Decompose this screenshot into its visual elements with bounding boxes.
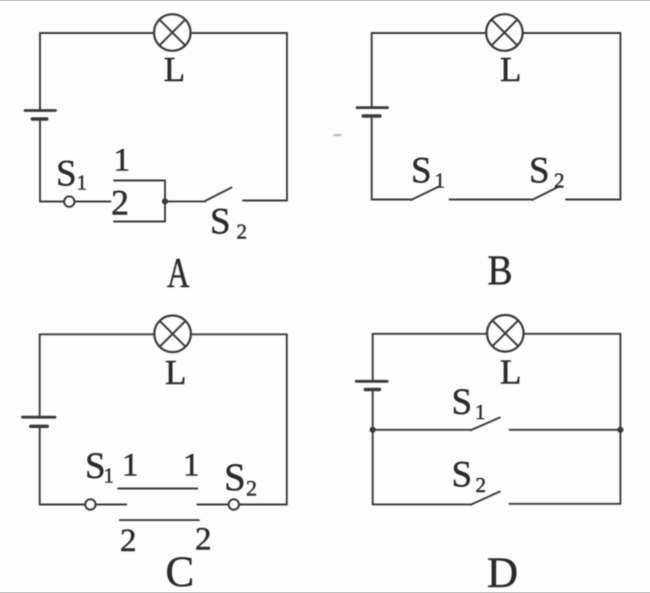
wire: C top-left: [40, 333, 155, 335]
svg-text:S: S: [224, 456, 246, 499]
wire: A top-right: [190, 32, 287, 34]
wire: B bottom-middle: [450, 199, 533, 201]
svg-text:L: L: [165, 353, 186, 392]
svg-text:1: 1: [183, 448, 200, 484]
switch S1 (D) blade: [471, 418, 500, 431]
svg-text:2: 2: [195, 522, 212, 558]
switch S2 (D) blade: [471, 492, 500, 505]
battery long plate (A): [25, 109, 56, 112]
svg-text:2: 2: [237, 219, 248, 243]
svg-text:S: S: [56, 153, 77, 194]
wire: B left vertical upper: [371, 33, 373, 107]
svg-text:C: C: [166, 549, 195, 593]
wire: S1 circle to contacts (C): [96, 504, 126, 506]
svg-text:2: 2: [246, 476, 257, 501]
wire: C bottom-right: [239, 504, 287, 506]
wire: A bottom-left: [40, 201, 64, 203]
wire: D left vertical upper: [372, 334, 374, 381]
switch S1 (B) blade: [411, 186, 440, 200]
lamp L (C): [154, 316, 191, 353]
wire: B right vertical: [619, 33, 621, 200]
wire: C bottom-left: [40, 504, 85, 506]
battery long plate (D): [356, 380, 387, 383]
wire: C left vertical lower: [39, 427, 41, 505]
wire: B top-right: [522, 32, 620, 34]
svg-text:2: 2: [554, 168, 565, 192]
wire: D right vertical: [619, 334, 621, 504]
battery long plate (C): [23, 416, 56, 419]
wire: D left vertical lower: [372, 390, 374, 504]
switch S1 contact circle (A): [64, 196, 74, 206]
battery short plate (A): [32, 117, 47, 120]
switch S2 contact circle (C): [229, 499, 239, 509]
wire: D branch1 right: [510, 429, 621, 431]
wire: A bottom-right: [243, 200, 287, 202]
wire: C top-right: [191, 333, 287, 335]
node junction dot (A): [162, 198, 168, 204]
battery short plate (C): [31, 425, 48, 428]
node dot right (D): [617, 427, 623, 433]
lamp L (D): [487, 315, 524, 352]
wire: A top-left: [40, 32, 154, 34]
svg-text:1: 1: [77, 171, 88, 195]
svg-text:1: 1: [122, 448, 139, 484]
svg-text:S: S: [210, 201, 231, 242]
knife top bar 1-1 (C): [118, 488, 197, 490]
wire: A left vertical upper: [39, 33, 41, 110]
wire: contacts to S2 circle (C): [197, 504, 228, 506]
svg-text:2: 2: [476, 473, 487, 497]
wire: A left vertical lower: [39, 120, 41, 202]
switch S2 (B) blade: [532, 186, 560, 200]
svg-text:1: 1: [435, 168, 446, 192]
battery long plate (B): [357, 106, 388, 109]
svg-text:1: 1: [475, 400, 486, 424]
lamp L (B): [486, 14, 523, 51]
svg-text:1: 1: [114, 142, 131, 178]
wire: B bottom-left: [372, 199, 411, 201]
svg-text:S: S: [411, 150, 432, 191]
wire: A right vertical: [286, 33, 288, 201]
wire: D branch1 left: [373, 429, 471, 431]
switch S2 (A) blade: [205, 188, 232, 202]
wire: C left vertical upper: [39, 334, 41, 417]
lamp L (A): [154, 14, 191, 51]
svg-text:1: 1: [104, 464, 115, 488]
selector contact 2 bar (A): [114, 221, 165, 223]
selector vertical link (A): [164, 181, 166, 222]
wire: B left vertical lower: [371, 117, 373, 200]
wire: C right vertical: [286, 334, 288, 504]
svg-text:B: B: [488, 249, 513, 295]
svg-text:S: S: [452, 382, 473, 423]
svg-text:S: S: [452, 455, 473, 496]
svg-text:A: A: [167, 251, 190, 297]
wire: S1 circle to selector (A): [75, 201, 111, 203]
svg-text:S: S: [85, 446, 106, 487]
wire: B top-left: [372, 32, 487, 34]
svg-text:L: L: [500, 50, 521, 89]
svg-text:D: D: [487, 550, 518, 593]
wire: B bottom-right: [566, 199, 620, 201]
wire: dot to S2 pivot (A): [165, 200, 206, 202]
wire: D top-left: [373, 333, 488, 335]
battery short plate (D): [365, 388, 379, 391]
switch S1 contact circle (C): [85, 499, 95, 509]
wire: D branch2 left: [373, 503, 471, 505]
svg-text:S: S: [529, 150, 550, 191]
wire: D top-right: [523, 333, 620, 335]
node dot left (D): [370, 427, 376, 433]
svg-text:2: 2: [111, 183, 129, 223]
svg-text:L: L: [164, 50, 185, 89]
selector contact 1 bar (A): [114, 180, 165, 182]
battery short plate (B): [363, 114, 380, 117]
svg-text:L: L: [500, 353, 521, 392]
knife bottom bar 2-2 (C): [120, 519, 199, 521]
wire: D branch2 right: [510, 503, 621, 505]
svg-text:2: 2: [120, 523, 137, 559]
